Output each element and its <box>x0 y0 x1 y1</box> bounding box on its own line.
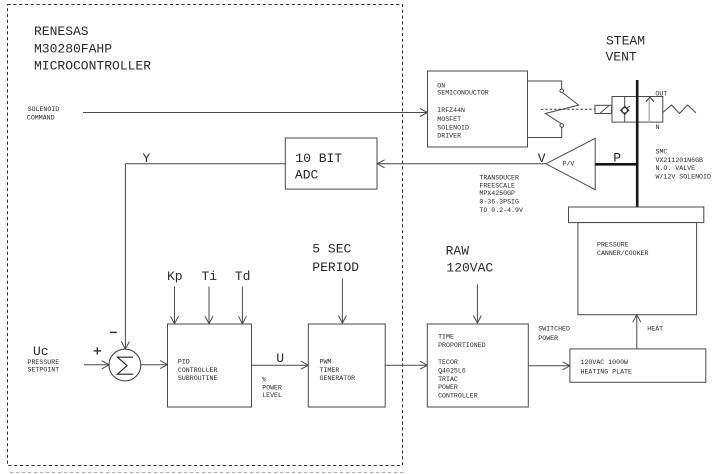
valve check element (closed position) <box>621 97 631 123</box>
triac power controller block Q1 <box>427 324 528 407</box>
transducer P/V triangle U3 <box>546 138 595 189</box>
svg-text:%: % <box>262 377 266 384</box>
svg-text:MICROCONTROLLER: MICROCONTROLLER <box>34 59 151 74</box>
label plus sign <box>94 347 101 354</box>
label percent power level <box>262 377 282 400</box>
label SOLENOID COMMAND <box>27 106 59 122</box>
svg-text:SMC: SMC <box>656 149 668 156</box>
valve solenoid actuator box <box>595 105 612 113</box>
svg-text:DRIVER: DRIVER <box>437 133 461 140</box>
wire setpoint input arrow <box>84 361 109 369</box>
steam pipe thick vertical <box>636 80 639 208</box>
wire Ti arrow into PID block <box>205 287 213 324</box>
svg-text:RAW: RAW <box>446 243 470 258</box>
svg-text:5 SEC: 5 SEC <box>312 242 351 257</box>
svg-text:10 BIT: 10 BIT <box>295 151 342 166</box>
pressure tap thick line P <box>595 163 638 166</box>
wire PWM to triac controller <box>385 361 427 369</box>
svg-text:W/12V SOLENOID: W/12V SOLENOID <box>656 173 711 180</box>
pressure canner lid <box>569 207 704 223</box>
svg-text:SWITCHED: SWITCHED <box>538 325 570 332</box>
label Td <box>235 269 251 284</box>
svg-text:PROPORTIONED: PROPORTIONED <box>438 342 486 349</box>
wire raw 120VAC arrow into triac <box>473 285 481 324</box>
wire V from transducer to ADC <box>377 160 546 168</box>
svg-text:SOLENOID: SOLENOID <box>437 124 469 131</box>
svg-text:SUBROUTINE: SUBROUTINE <box>178 375 218 382</box>
label transducer part <box>479 174 523 214</box>
svg-text:MOSFET: MOSFET <box>437 116 461 123</box>
svg-text:VENT: VENT <box>606 50 637 65</box>
svg-text:SETPOINT: SETPOINT <box>28 367 60 374</box>
svg-text:SEMICONDUCTOR: SEMICONDUCTOR <box>437 90 488 97</box>
svg-text:CONTROLLER: CONTROLLER <box>178 367 218 374</box>
svg-text:Td: Td <box>235 269 251 284</box>
svg-text:HEAT: HEAT <box>647 325 663 332</box>
label SMC valve part number <box>656 149 711 181</box>
svg-text:PRESSURE: PRESSURE <box>28 359 60 366</box>
svg-text:PWM: PWM <box>320 358 332 365</box>
svg-text:Uc: Uc <box>33 344 49 359</box>
svg-text:TECOR: TECOR <box>438 359 458 366</box>
wire Y feedback from ADC to summing junction <box>121 164 285 349</box>
svg-text:STEAM: STEAM <box>606 34 645 49</box>
op-amp block U2: MOSFET driver box <box>428 71 528 147</box>
svg-text:ON: ON <box>437 83 445 90</box>
svg-text:Kp: Kp <box>167 269 183 284</box>
PWM timer generator block <box>308 324 385 407</box>
wire switched power to heating plate <box>528 362 570 370</box>
pressure canner body <box>578 223 697 315</box>
wire MOSFET output top <box>528 81 562 89</box>
solenoid valve V1 body <box>612 97 663 123</box>
node Y <box>143 151 151 166</box>
label 5 SEC PERIOD <box>312 242 359 276</box>
svg-text:RENESAS: RENESAS <box>34 24 89 39</box>
label RENESAS M30280FAHP MICROCONTROLLER <box>34 24 151 73</box>
node P <box>613 151 621 166</box>
svg-text:FREESCALE: FREESCALE <box>479 182 515 189</box>
wire solenoid command to MOSFET driver <box>83 109 427 117</box>
svg-text:COMMAND: COMMAND <box>27 115 55 122</box>
label OUT port <box>655 91 667 98</box>
wire Td arrow into PID block <box>238 287 246 324</box>
wire U from PID to PWM <box>252 361 309 369</box>
wire heat arrow from plate to canner <box>633 315 641 349</box>
label Kp <box>167 269 183 284</box>
label SWITCHED POWER <box>538 325 570 341</box>
svg-text:PID: PID <box>178 358 190 365</box>
svg-text:PERIOD: PERIOD <box>312 260 359 275</box>
wire Kp arrow into PID block <box>171 287 179 324</box>
svg-text:OUT: OUT <box>655 91 667 98</box>
svg-text:GENERATOR: GENERATOR <box>320 375 356 382</box>
label Uc PRESSURE SETPOINT <box>28 344 60 374</box>
svg-text:TRANSDUCER: TRANSDUCER <box>479 174 519 181</box>
svg-text:HEATING PLATE: HEATING PLATE <box>581 368 632 375</box>
svg-text:U: U <box>276 351 284 366</box>
svg-text:TIME: TIME <box>438 334 454 341</box>
svg-text:IRFZ44N: IRFZ44N <box>437 107 465 114</box>
label STEAM VENT <box>606 34 646 65</box>
wire summing junction to PID <box>141 361 168 369</box>
svg-text:CONTROLLER: CONTROLLER <box>438 393 478 400</box>
valve return spring <box>663 105 696 114</box>
svg-text:120VAC: 120VAC <box>446 260 493 275</box>
faint bottom page dashed line <box>10 472 404 474</box>
switch contact top <box>560 89 564 93</box>
svg-text:CANNER/COOKER: CANNER/COOKER <box>597 250 648 257</box>
heating plate block <box>570 349 706 382</box>
svg-text:POWER: POWER <box>438 384 458 391</box>
wire MOSFET output bottom <box>528 127 562 137</box>
svg-text:VX211201N6GB: VX211201N6GB <box>656 157 704 164</box>
svg-text:LEVEL: LEVEL <box>262 392 282 399</box>
wire 5 sec period arrow into PWM <box>338 279 346 324</box>
node V <box>538 151 546 166</box>
switch blade zigzag <box>546 93 579 124</box>
valve flow arrow (open position) <box>646 97 654 122</box>
label RAW 120VAC <box>446 243 494 275</box>
label Ti <box>202 269 218 284</box>
svg-text:SOLENOID: SOLENOID <box>28 106 60 113</box>
svg-text:M30280FAHP: M30280FAHP <box>34 41 112 56</box>
node U <box>276 351 284 366</box>
svg-text:0-36.3PSIG: 0-36.3PSIG <box>479 199 519 206</box>
microcontroller dashed boundary box <box>8 5 403 466</box>
label N port <box>656 124 660 131</box>
svg-text:Ti: Ti <box>202 269 218 284</box>
svg-text:N.O. VALVE: N.O. VALVE <box>656 165 696 172</box>
svg-text:Q4025L6: Q4025L6 <box>438 368 466 375</box>
svg-text:TRIAC: TRIAC <box>438 376 458 383</box>
svg-text:ADC: ADC <box>295 167 319 182</box>
label HEAT <box>647 325 663 332</box>
mechanical linkage dashed line to valve actuator <box>541 108 595 110</box>
switch contact bottom <box>560 124 564 128</box>
svg-text:POWER: POWER <box>538 335 558 342</box>
summing junction <box>109 349 141 381</box>
svg-text:N: N <box>656 124 660 131</box>
PID controller block <box>168 324 252 407</box>
svg-text:TIMER: TIMER <box>320 367 340 374</box>
svg-text:TO 0.2-4.9V: TO 0.2-4.9V <box>479 207 523 214</box>
svg-text:120VAC 1000W: 120VAC 1000W <box>581 359 629 366</box>
svg-text:POWER: POWER <box>262 385 282 392</box>
svg-text:PRESSURE: PRESSURE <box>597 242 629 249</box>
label minus sign <box>110 331 117 333</box>
svg-text:P/V: P/V <box>563 161 575 168</box>
ADC block: 10 BIT ADC <box>285 138 377 189</box>
svg-text:MPX4250GP: MPX4250GP <box>479 190 515 197</box>
